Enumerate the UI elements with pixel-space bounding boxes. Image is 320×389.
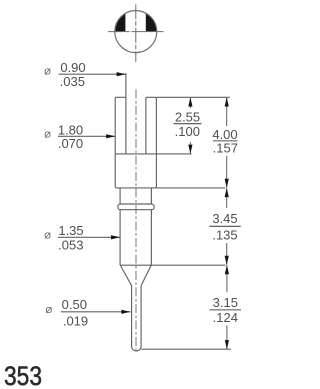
svg-text:Ø: Ø — [44, 67, 51, 77]
svg-text:3.45: 3.45 — [212, 211, 237, 226]
svg-text:.135: .135 — [212, 227, 237, 242]
svg-text:2.55: 2.55 — [175, 110, 200, 125]
svg-text:.070: .070 — [58, 136, 83, 151]
svg-text:Ø: Ø — [46, 305, 53, 315]
svg-text:3.15: 3.15 — [213, 295, 238, 310]
svg-text:1.35: 1.35 — [58, 223, 83, 238]
svg-text:.124: .124 — [213, 310, 238, 325]
svg-text:.053: .053 — [58, 238, 83, 253]
svg-text:.019: .019 — [63, 313, 88, 328]
svg-text:.100: .100 — [175, 124, 200, 139]
svg-text:0.90: 0.90 — [60, 60, 85, 75]
svg-text:.035: .035 — [60, 74, 85, 89]
svg-text:353: 353 — [4, 361, 42, 389]
svg-text:Ø: Ø — [44, 129, 51, 139]
svg-text:.157: .157 — [213, 141, 238, 156]
svg-text:0.50: 0.50 — [62, 297, 87, 312]
svg-text:Ø: Ø — [44, 230, 51, 240]
